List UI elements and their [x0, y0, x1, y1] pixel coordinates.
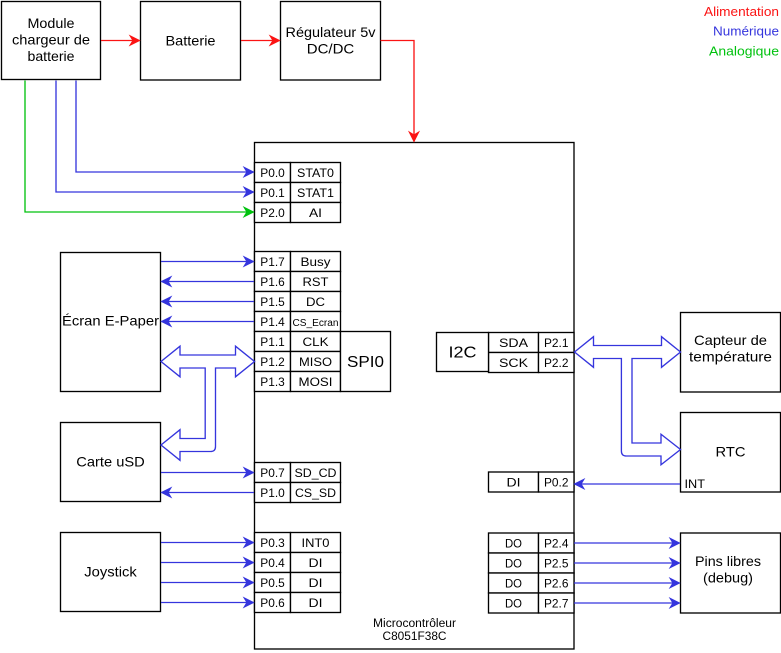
- svg-text:P2.0: P2.0: [260, 206, 285, 220]
- svg-text:P1.2: P1.2: [260, 355, 285, 369]
- svg-text:Analogique: Analogique: [709, 44, 779, 59]
- svg-text:Joystick: Joystick: [84, 564, 138, 580]
- svg-text:AI: AI: [309, 206, 322, 220]
- svg-text:INT0: INT0: [302, 536, 330, 550]
- svg-text:SD_CD: SD_CD: [295, 466, 337, 480]
- svg-text:P2.6: P2.6: [544, 576, 569, 590]
- svg-text:P1.1: P1.1: [260, 335, 285, 349]
- svg-text:DO: DO: [505, 596, 522, 610]
- svg-text:Microcontrôleur: Microcontrôleur: [373, 618, 456, 630]
- svg-text:Capteur de: Capteur de: [694, 332, 767, 348]
- svg-text:CS_Ecran: CS_Ecran: [293, 318, 339, 329]
- svg-text:P1.4: P1.4: [260, 315, 285, 329]
- svg-text:RTC: RTC: [716, 444, 746, 460]
- svg-text:P0.2: P0.2: [544, 475, 569, 489]
- svg-text:DI: DI: [309, 556, 323, 570]
- svg-text:Numérique: Numérique: [713, 24, 779, 39]
- svg-text:(debug): (debug): [703, 570, 753, 586]
- svg-text:température: température: [689, 349, 772, 365]
- svg-text:DI: DI: [309, 596, 323, 610]
- svg-text:DC/DC: DC/DC: [307, 41, 355, 57]
- svg-text:CS_SD: CS_SD: [295, 486, 336, 500]
- svg-text:P1.0: P1.0: [260, 486, 285, 500]
- svg-text:DC: DC: [306, 295, 325, 309]
- svg-text:MISO: MISO: [299, 355, 332, 369]
- svg-text:SPI0: SPI0: [347, 354, 384, 371]
- svg-text:Carte uSD: Carte uSD: [76, 454, 145, 470]
- svg-text:Busy: Busy: [301, 255, 331, 269]
- svg-text:SCK: SCK: [499, 356, 528, 370]
- svg-text:P2.2: P2.2: [544, 356, 569, 370]
- svg-text:P0.7: P0.7: [260, 466, 285, 480]
- svg-text:C8051F38C: C8051F38C: [383, 631, 447, 643]
- svg-text:DO: DO: [505, 536, 522, 550]
- svg-text:Régulateur 5v: Régulateur 5v: [286, 24, 376, 40]
- svg-text:P1.6: P1.6: [260, 275, 285, 289]
- svg-text:STAT0: STAT0: [297, 166, 334, 180]
- svg-text:chargeur de: chargeur de: [12, 32, 90, 48]
- svg-text:P2.7: P2.7: [544, 596, 569, 610]
- svg-text:INT: INT: [685, 477, 706, 491]
- svg-text:batterie: batterie: [28, 48, 75, 64]
- svg-text:DO: DO: [505, 556, 522, 570]
- svg-text:P0.6: P0.6: [260, 596, 285, 610]
- svg-text:DO: DO: [505, 576, 522, 590]
- svg-text:Alimentation: Alimentation: [704, 4, 779, 19]
- svg-text:P0.5: P0.5: [260, 576, 285, 590]
- svg-text:Batterie: Batterie: [166, 33, 216, 49]
- svg-text:I2C: I2C: [449, 345, 477, 362]
- svg-text:P0.3: P0.3: [260, 536, 285, 550]
- svg-text:STAT1: STAT1: [297, 186, 334, 200]
- svg-text:P1.3: P1.3: [260, 375, 285, 389]
- svg-text:P1.7: P1.7: [260, 255, 285, 269]
- svg-text:CLK: CLK: [303, 335, 329, 349]
- svg-text:P0.1: P0.1: [260, 186, 285, 200]
- svg-text:MOSI: MOSI: [299, 375, 333, 389]
- svg-text:P2.1: P2.1: [544, 336, 569, 350]
- svg-text:RST: RST: [303, 275, 330, 289]
- svg-text:Écran E-Paper: Écran E-Paper: [62, 313, 159, 329]
- svg-text:P0.0: P0.0: [260, 166, 285, 180]
- svg-text:P2.5: P2.5: [544, 556, 569, 570]
- svg-text:P0.4: P0.4: [260, 556, 285, 570]
- svg-text:Pins libres: Pins libres: [695, 553, 761, 569]
- svg-text:P2.4: P2.4: [544, 536, 569, 550]
- svg-text:Module: Module: [28, 15, 75, 31]
- svg-text:P1.5: P1.5: [260, 295, 285, 309]
- svg-text:DI: DI: [507, 475, 521, 489]
- svg-text:DI: DI: [309, 576, 323, 590]
- svg-text:SDA: SDA: [499, 336, 528, 350]
